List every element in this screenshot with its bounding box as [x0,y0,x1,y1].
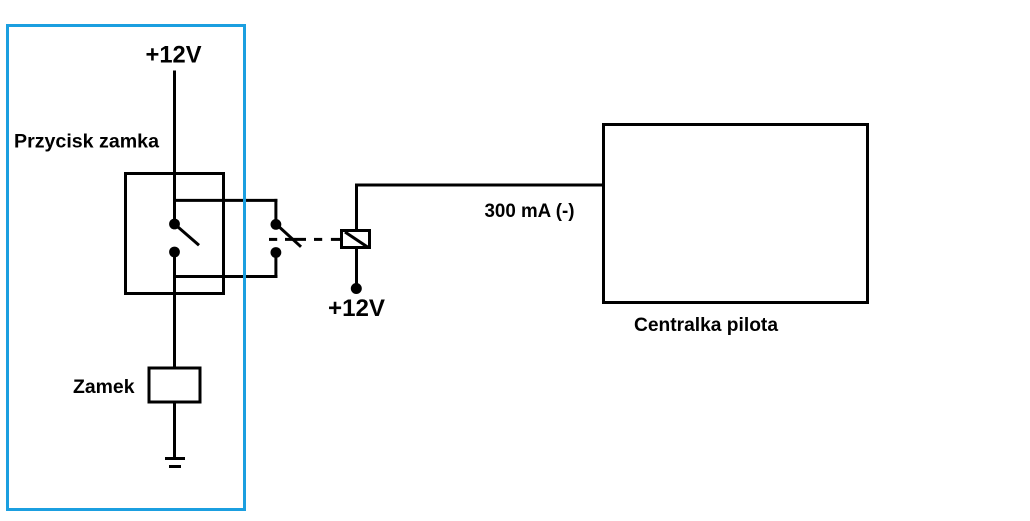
switch S1 lower contact node [169,247,180,258]
dashed actuation link segment 4 into relay coil [331,238,341,241]
switch S2 lower node [271,247,282,258]
wire right vertical upper [274,199,277,224]
wire relay bottom to +12V node [355,247,358,288]
dashed actuation link segment 2 (long, crossed by blade) [285,238,306,241]
svg-text:+12V: +12V [146,41,202,68]
switch S2 blade [276,224,301,246]
wire bottom horizontal to relay contact [173,275,277,278]
wire switch lower contact down to lock [173,252,176,368]
switch S1 upper contact node [169,219,180,230]
switch S1 blade [175,224,200,245]
dashed actuation link to relay coil, segment 1 [269,238,277,241]
dashed actuation link segment 3 [314,238,322,241]
relay coil K1 diagonal [345,232,368,247]
relay coil K1 box [342,231,370,248]
lock (Zamek) box [149,368,200,402]
switch box (Przycisk zamka enclosure) [126,174,224,294]
wire top horizontal to relay contact [173,199,277,202]
svg-text:Centralka pilota: Centralka pilota [634,314,778,336]
ground [165,457,185,460]
switch S2 (relay contact) upper node [271,219,282,230]
wire lock to ground [173,402,176,458]
svg-text:300 mA (-): 300 mA (-) [485,200,575,222]
Centralka pilota box [604,125,868,303]
wire right vertical lower [274,252,277,278]
svg-text:+12V: +12V [328,295,385,322]
wire horizontal feed to Centralka pilota [355,184,604,187]
wire relay top to horizontal feed [355,184,358,232]
node +12V under relay [351,283,362,294]
blue highlight frame [8,26,245,510]
wire from +12V down to switch upper contact [173,71,176,225]
svg-text:Zamek: Zamek [73,376,135,398]
svg-text:Przycisk zamka: Przycisk zamka [14,131,159,153]
